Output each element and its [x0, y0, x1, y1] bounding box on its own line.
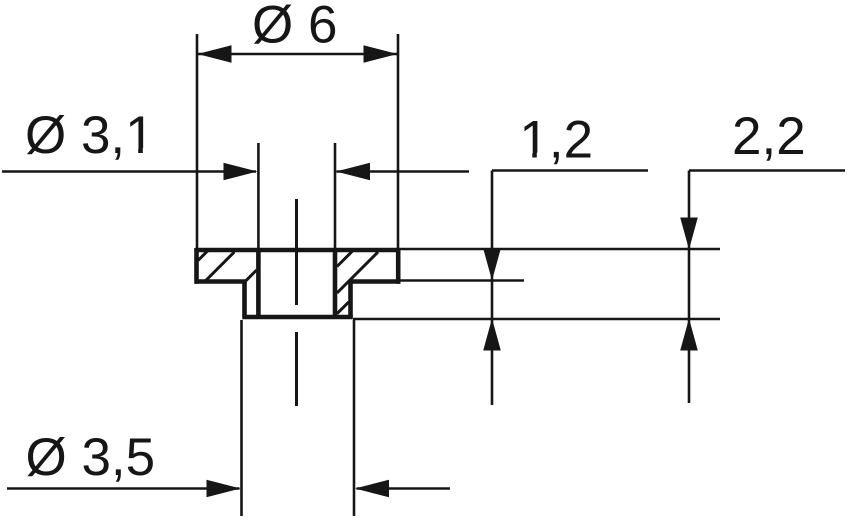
svg-text:Ø 6: Ø 6 [252, 0, 337, 55]
svg-text:1,2: 1,2 [519, 111, 593, 170]
svg-text:Ø 3,1: Ø 3,1 [25, 106, 155, 165]
svg-text:Ø 3,5: Ø 3,5 [26, 428, 156, 487]
svg-text:2,2: 2,2 [732, 107, 806, 166]
